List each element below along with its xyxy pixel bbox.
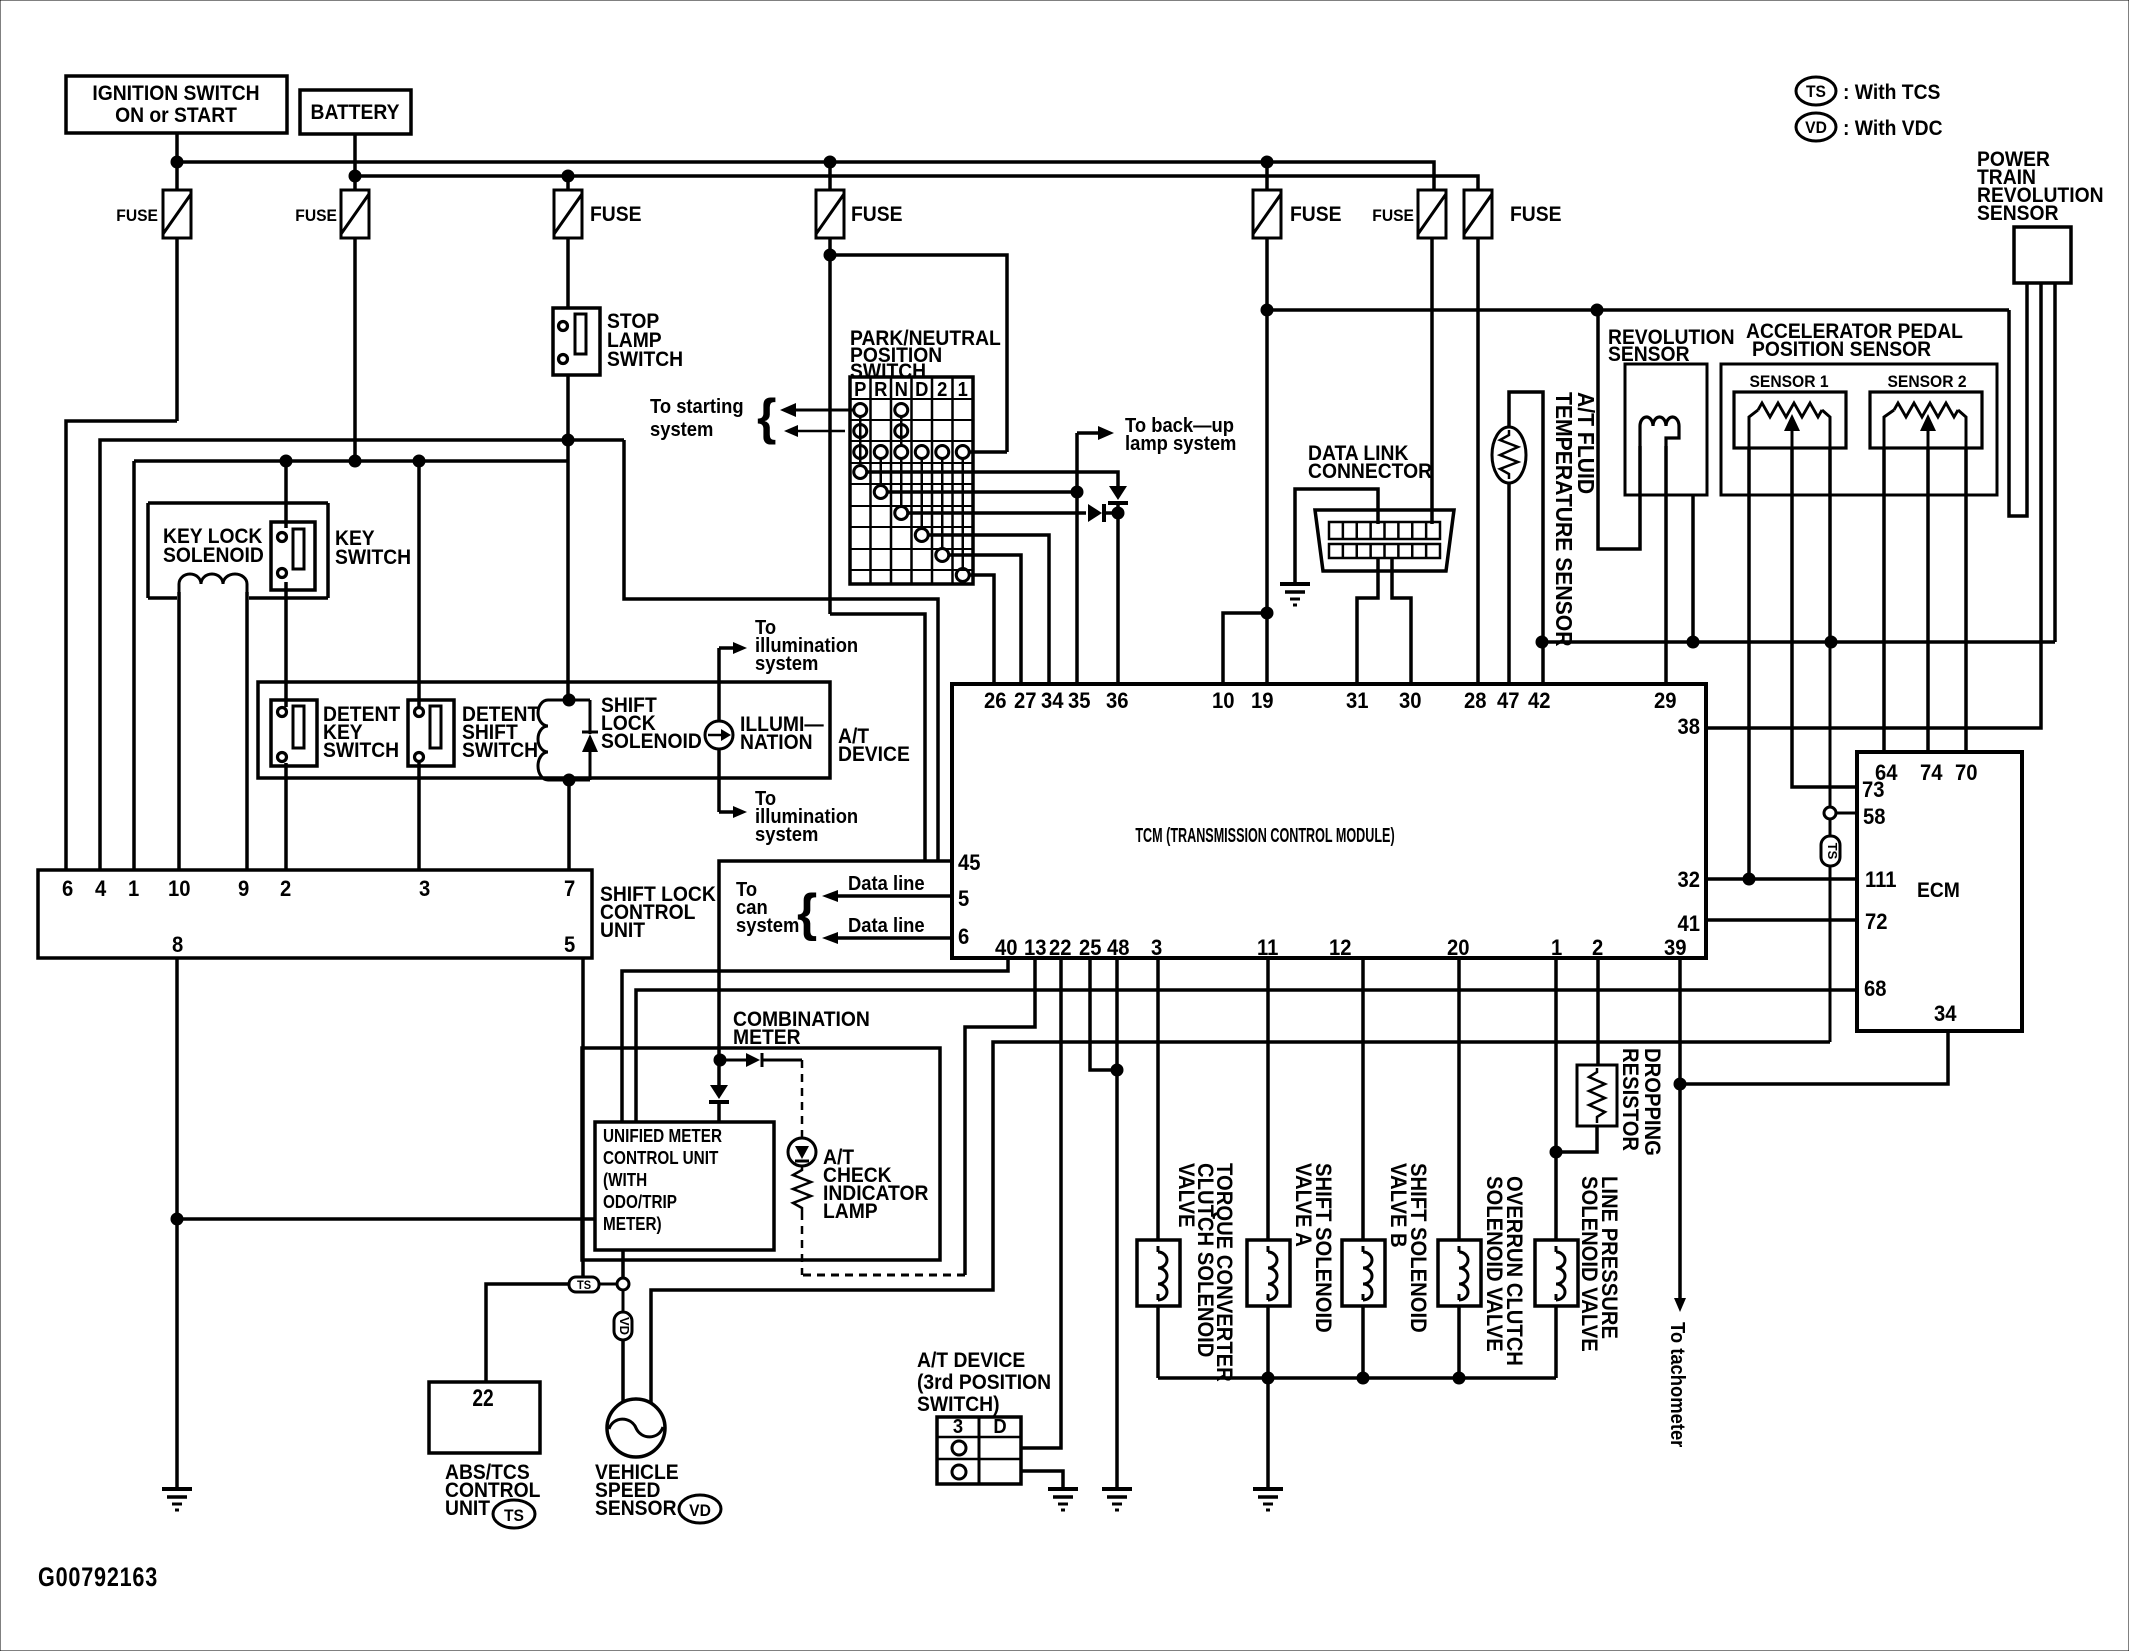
ECM left pin labels (1862, 778, 1897, 1001)
wire rail branch pin 1 (132, 461, 136, 870)
svg-text:TCM (TRANSMISSION CONTROL MODU: TCM (TRANSMISSION CONTROL MODULE) (1135, 824, 1394, 847)
svg-text:: With TCS: : With TCS (1843, 81, 1940, 104)
svg-text:: With VDC: : With VDC (1843, 117, 1943, 140)
node stop lamp junction (562, 434, 574, 446)
svg-text:SWITCH: SWITCH (323, 739, 399, 762)
svg-text:SENSOR: SENSOR (1977, 202, 2059, 225)
svg-text:VD: VD (1805, 118, 1827, 137)
wire power train sensor signal to TCM 38 (1706, 283, 2041, 728)
node pin 48 junction (1111, 1064, 1123, 1076)
diode D1 down (1108, 486, 1128, 513)
TCM right pin labels (1677, 715, 1700, 936)
svg-text:6: 6 (62, 877, 73, 901)
wire bus to fuse F4 (828, 162, 832, 190)
node sensor1 junction on 111 line (1743, 873, 1755, 885)
node battery bus junction (349, 170, 361, 182)
svg-text:SOLENOID: SOLENOID (163, 544, 264, 567)
svg-text:12: 12 (1329, 936, 1352, 960)
svg-text:41: 41 (1677, 912, 1700, 936)
ground data link connector (1280, 584, 1310, 605)
svg-text:9: 9 (238, 877, 249, 901)
svg-text:SOLENOID: SOLENOID (601, 730, 702, 753)
svg-text:UNIT: UNIT (600, 919, 646, 942)
ground pin 48 (1102, 1489, 1132, 1510)
svg-text:40: 40 (995, 936, 1018, 960)
svg-text:8: 8 (172, 933, 183, 957)
svg-text:10: 10 (1212, 689, 1235, 713)
svg-text:42: 42 (1528, 689, 1551, 713)
fuse F7 TCM power (1464, 190, 1561, 238)
wire PNP 1 contact to TCM pin 26 (969, 575, 994, 684)
svg-text:VALVE B: VALVE B (1386, 1163, 1410, 1248)
ECM box (1857, 752, 2022, 1031)
svg-text:3: 3 (419, 877, 430, 901)
park/neutral position switch grid (850, 377, 973, 584)
shift solenoid valve B (1342, 1240, 1385, 1306)
wire rail Q to meter feed (830, 614, 925, 861)
svg-text:10: 10 (168, 877, 191, 901)
node diode junction (1112, 507, 1124, 519)
wire PNP row3 common (969, 450, 1007, 454)
node rail detent shift junction (413, 455, 425, 467)
figure number (38, 1563, 158, 1593)
node back-up power junction (1261, 304, 1273, 316)
ground shift lock control unit (162, 1489, 192, 1510)
wire power train sensor ground to bus (2053, 283, 2057, 642)
svg-text:FUSE: FUSE (116, 206, 158, 225)
detent key switch (271, 700, 317, 766)
stop lamp switch (553, 308, 600, 375)
label to tachometer (1666, 1322, 1688, 1448)
svg-text:CONNECTOR: CONNECTOR (1308, 460, 1432, 483)
svg-text:UNIT: UNIT (445, 1497, 491, 1520)
svg-text:2: 2 (280, 877, 291, 901)
PNP header P R N D 2 1 (854, 379, 968, 401)
svg-text:SWITCH): SWITCH) (917, 1393, 1000, 1416)
ABS/TCS control unit box (429, 1382, 540, 1453)
node revolution sensor bus junction (1687, 636, 1699, 648)
legend TS at ABS unit (493, 1500, 535, 1528)
A/T fluid temperature sensor (1492, 427, 1526, 483)
symbol VD capsule speedo (614, 1290, 632, 1340)
wire ECM 34 to tachometer line (1680, 1031, 1948, 1084)
wire data link connector to TCM pin 30 (1392, 558, 1411, 684)
wire tcc valve to bus (1156, 1306, 1160, 1378)
wire temp sensor to TCM pin 42 (1509, 392, 1543, 684)
wire check lamp dashed link (802, 1274, 965, 1277)
wire sensor2 left to ECM 64 (1882, 448, 1886, 752)
svg-text:5: 5 (958, 887, 969, 911)
svg-text:2: 2 (1592, 936, 1603, 960)
wire key switch to detent key switch (284, 582, 288, 707)
node revolution sensor feed junction (1591, 304, 1603, 316)
node speed tap circle (599, 1278, 629, 1290)
PNP column wires (860, 416, 963, 569)
illumination lamp (705, 721, 733, 749)
svg-text:TS: TS (1825, 843, 1840, 860)
svg-text:20: 20 (1447, 936, 1470, 960)
TCM top pin labels (984, 689, 1677, 713)
wire bus to fuse F3 (566, 176, 570, 190)
node valve B bus junction (1357, 1372, 1369, 1384)
svg-text:32: 32 (1677, 868, 1700, 892)
symbol TS capsule on speed line (1821, 836, 1840, 866)
accelerator pedal position sensor label (1746, 320, 1963, 361)
wire TCM 20 to overrun clutch solenoid (1457, 958, 1461, 1240)
svg-text:70: 70 (1955, 761, 1978, 785)
svg-text:SOLENOID VALVE: SOLENOID VALVE (1577, 1176, 1601, 1352)
data link connector body (1315, 510, 1454, 571)
shift lock control unit top pins (62, 877, 575, 901)
line pressure solenoid valve label (1577, 1176, 1621, 1352)
node bus fuse3 junction (562, 170, 574, 182)
svg-text:{: { (757, 389, 776, 445)
svg-text:FUSE: FUSE (295, 206, 337, 225)
node back-up junction (1071, 486, 1083, 498)
accelerator pedal position sensor box (1721, 364, 1997, 495)
potentiometer sensor 2 (1870, 392, 1982, 448)
wire PNP R contact to back-up feed (887, 490, 1077, 494)
svg-text:POSITION SENSOR: POSITION SENSOR (1752, 338, 1932, 361)
wire battery to bus (353, 134, 357, 190)
wire stop lamp switch down (566, 375, 570, 461)
wire revolution sensor shield to bus (1691, 495, 1695, 642)
svg-text:68: 68 (1864, 977, 1887, 1001)
svg-text:SWITCH: SWITCH (462, 739, 538, 762)
unified meter control unit label (603, 1126, 722, 1234)
shift lock control unit label (600, 883, 716, 942)
shift lock control unit bottom pins (172, 933, 575, 957)
svg-text:VD: VD (689, 1501, 711, 1520)
svg-text:RESISTOR: RESISTOR (1618, 1048, 1642, 1151)
A/T device 3rd position switch label (917, 1349, 1051, 1416)
wire rail to detent shift switch (417, 461, 421, 707)
svg-text:SWITCH: SWITCH (607, 348, 683, 371)
svg-text:VALVE: VALVE (1174, 1163, 1198, 1227)
label to starting system (650, 389, 776, 445)
svg-text:system: system (650, 419, 713, 441)
wire TCM 1 to line pressure solenoid (1554, 958, 1558, 1240)
svg-text:7: 7 (564, 877, 575, 901)
wire rail down to shift lock solenoid (566, 461, 570, 700)
diode D4 in meter (709, 1085, 729, 1122)
PNP contact circles (854, 404, 970, 582)
wire shift lock 8 down (175, 958, 179, 1489)
wire TCM 45 to illumination feed (719, 861, 952, 1085)
svg-text:2: 2 (937, 379, 947, 401)
svg-text:SENSOR: SENSOR (595, 1497, 677, 1520)
arrow to tachometer (1674, 1298, 1686, 1312)
wire data line to TCM 5 (822, 890, 952, 902)
park/neutral position switch label (850, 327, 1001, 383)
wire TCM 3 to torque converter clutch solenoid (1156, 958, 1160, 1240)
ignition switch box (66, 76, 287, 133)
wire sensor1 wiper to ECM 73 (1792, 448, 1857, 787)
svg-text:G00792163: G00792163 (38, 1563, 158, 1593)
sensor 1 label (1749, 372, 1828, 391)
wire unified meter to ECM 68 (636, 990, 1857, 1122)
svg-text:NATION: NATION (740, 731, 813, 754)
stop lamp switch label (607, 310, 683, 371)
svg-text:TEMPERATURE SENSOR: TEMPERATURE SENSOR (1551, 392, 1577, 647)
fuse F3 stop lamp (554, 190, 641, 238)
wire dashed to check lamp (801, 1060, 804, 1138)
svg-text:26: 26 (984, 689, 1007, 713)
node overrun valve bus junction (1453, 1372, 1465, 1384)
svg-text:METER: METER (733, 1026, 801, 1049)
wire TCM 11 to shift solenoid A (1266, 958, 1270, 1240)
wire PNP D contact to TCM pin 34 (928, 535, 1049, 684)
fuse F2 battery (295, 190, 369, 238)
overrun clutch solenoid valve (1438, 1240, 1481, 1306)
label to back-up lamp system (1125, 415, 1236, 455)
wire stop lamp rail to pin 4 (100, 440, 624, 870)
A/T fluid temperature sensor label (1551, 392, 1599, 647)
arrow to illumination system lower (719, 806, 747, 818)
svg-text:VD: VD (617, 1317, 632, 1335)
wire fuse F1 down (175, 238, 179, 421)
wire speed chain to meter (651, 1042, 1830, 1404)
svg-text:45: 45 (958, 851, 981, 875)
svg-text:25: 25 (1079, 936, 1102, 960)
wire shift lock solenoid to pin 7 (567, 780, 571, 870)
wire valve B to bus (1361, 1306, 1365, 1378)
TCM left pin labels (958, 851, 981, 949)
node tachometer junction (1674, 1078, 1686, 1090)
detent shift switch (408, 700, 454, 766)
wire rail P to meter feed (624, 440, 938, 861)
legend TS with TCS (1796, 77, 1940, 105)
wire fuse F4 down (828, 238, 832, 614)
svg-text:FUSE: FUSE (851, 203, 902, 226)
wire key lock solenoid to pin 10 (177, 592, 181, 870)
svg-text:1: 1 (128, 877, 139, 901)
svg-text:ECM: ECM (1917, 879, 1960, 902)
wire illumination bottom (717, 749, 721, 812)
vehicle speed sensor (607, 1399, 665, 1457)
svg-text:BATTERY: BATTERY (311, 101, 401, 124)
svg-text:5: 5 (564, 933, 575, 957)
node shift lock solenoid top (563, 694, 575, 706)
ECM bottom pin label 34 (1934, 1002, 1957, 1026)
svg-text:UNIFIED METER: UNIFIED METER (603, 1126, 722, 1146)
wire fuse F2 down to rail (353, 238, 357, 461)
svg-text:system: system (736, 915, 799, 937)
svg-text:22: 22 (472, 1384, 493, 1412)
ground 3rd position switch (1048, 1489, 1078, 1510)
combination meter label (733, 1008, 870, 1049)
svg-text:13: 13 (1024, 936, 1047, 960)
svg-text:TS: TS (577, 1280, 591, 1292)
dropping resistor label (1618, 1048, 1664, 1156)
shift solenoid valve A (1247, 1240, 1290, 1306)
svg-text:72: 72 (1865, 910, 1888, 934)
svg-text:CONTROL UNIT: CONTROL UNIT (603, 1148, 719, 1168)
svg-text:SENSOR 1: SENSOR 1 (1749, 372, 1828, 391)
combination meter box (582, 1048, 940, 1260)
fuse F1 ignition (116, 190, 191, 238)
wire unified meter to speed node (621, 1250, 625, 1278)
svg-text:3: 3 (1151, 936, 1162, 960)
wire detent key switch to pin 2 (284, 763, 288, 870)
overrun clutch solenoid valve label (1482, 1176, 1526, 1366)
svg-text:Data line: Data line (848, 873, 925, 895)
fuse F6 data link (1372, 190, 1446, 238)
svg-text:(3rd POSITION: (3rd POSITION (917, 1371, 1051, 1394)
svg-text:73: 73 (1862, 778, 1885, 802)
svg-text:METER): METER) (603, 1214, 662, 1234)
key lock solenoid coil (179, 574, 247, 592)
shift solenoid valve B label (1386, 1163, 1430, 1333)
wire fuse F3 to stop lamp switch (566, 238, 570, 308)
revolution sensor coil (1640, 417, 1679, 446)
svg-text:27: 27 (1014, 689, 1037, 713)
ground solenoid valves (1253, 1489, 1283, 1510)
torque converter clutch solenoid valve label (1174, 1163, 1236, 1382)
svg-text:19: 19 (1251, 689, 1274, 713)
AT device label (838, 725, 910, 766)
svg-text:22: 22 (1049, 936, 1072, 960)
wire key lock solenoid to pin 9 (245, 592, 249, 870)
svg-text:34: 34 (1934, 1002, 1957, 1026)
ABS/TCS control unit label (445, 1461, 540, 1520)
TCM box (952, 684, 1706, 958)
svg-text:Data line: Data line (848, 915, 925, 937)
svg-text:48: 48 (1107, 936, 1130, 960)
wire TCM 48 to ground (1115, 958, 1119, 1489)
wire TS capsule to ABS unit (486, 1284, 569, 1382)
dropping resistor (1577, 1065, 1617, 1126)
wire valve ground bus (1158, 1376, 1556, 1380)
wire TCM 13 to check lamp (965, 958, 1035, 1275)
label data line upper (848, 873, 925, 895)
fuse F4 park/neutral (816, 190, 902, 238)
wire sensor ground bus (1542, 640, 2055, 644)
wire bus to fuse F5 (1265, 162, 1269, 190)
wire back-up feed to TCM pin 35 (1075, 433, 1079, 684)
wire 3rd position switch to ground (1021, 1471, 1063, 1489)
wire sensor2 right to ECM 70 (1964, 448, 1968, 752)
ECM top pin labels (1875, 761, 1978, 785)
svg-text:A/T DEVICE: A/T DEVICE (917, 1349, 1025, 1372)
wire rail to shift lock solenoid feed (134, 459, 568, 463)
A/T device box (258, 682, 830, 778)
wire vehicle speed chain vertical (1829, 642, 1832, 1042)
svg-text:34: 34 (1041, 689, 1064, 713)
illumination label (740, 713, 824, 754)
wire fuse F7 to TCM pin 28 (1476, 238, 1480, 684)
battery box (300, 90, 411, 134)
svg-text:ON or START: ON or START (115, 104, 238, 127)
wire TCM 32 to ECM 111 (1706, 877, 1857, 881)
arrow to back-up lamp system (1077, 426, 1114, 440)
svg-text:111: 111 (1865, 868, 1897, 892)
diode D2 right (1088, 504, 1118, 522)
svg-text:11: 11 (1257, 936, 1279, 960)
arrow to illumination system upper (719, 642, 747, 654)
diode D3 in meter (720, 1053, 802, 1067)
wire temp sensor to TCM pin 47 (1507, 483, 1511, 684)
wire shift lock 5 down (581, 958, 585, 1277)
wire dropping resistor to valve (1556, 1126, 1597, 1152)
svg-text:TS: TS (504, 1506, 524, 1525)
svg-text:39: 39 (1664, 936, 1687, 960)
svg-text:1: 1 (1551, 936, 1562, 960)
node TCM pin 19 junction (1261, 607, 1273, 619)
wire sensor1 right to bus (1828, 448, 1832, 642)
node bus fuse5 junction (1261, 156, 1273, 168)
wire line pressure valve to bus (1554, 1306, 1558, 1378)
TCM label (1135, 824, 1394, 847)
node bus fuse4 junction (824, 156, 836, 168)
svg-text:6: 6 (958, 925, 969, 949)
torque converter clutch solenoid valve (1137, 1240, 1180, 1306)
symbol TS capsule speedo (569, 1277, 599, 1292)
key switch (271, 522, 315, 590)
label to illumination system upper (755, 617, 858, 675)
wire revolution sensor feed (1598, 310, 1640, 549)
unified meter control unit box (595, 1122, 774, 1250)
node PNP feed junction (824, 249, 836, 261)
svg-text:N: N (895, 379, 908, 401)
svg-text:4: 4 (95, 877, 106, 901)
wire PNP common feed (830, 255, 1007, 452)
node ignition bus junction (171, 156, 183, 168)
wire TCM 40 to meter (622, 958, 1008, 1122)
svg-text:TS: TS (1806, 82, 1826, 101)
wire data line to TCM 6 (822, 932, 952, 944)
wire overrun valve to bus (1457, 1306, 1461, 1378)
wire revolution sensor to TCM pin 29 (1664, 446, 1668, 684)
wire lower supply bus (355, 176, 1478, 190)
wire PNP 2 contact to TCM pin 27 (948, 555, 1021, 684)
wire rail to key switch (284, 461, 288, 528)
arrow to starting system 2 (784, 425, 845, 437)
power train revolution sensor label (1977, 148, 2104, 225)
svg-text:35: 35 (1068, 689, 1091, 713)
wire diode junction to TCM pin 36 (1116, 513, 1120, 684)
svg-text:D: D (915, 379, 928, 401)
svg-text:FUSE: FUSE (1290, 203, 1341, 226)
svg-text:R: R (874, 379, 887, 401)
shift lock solenoid (538, 700, 598, 780)
wire TCM 2 to dropping resistor (1596, 958, 1600, 1065)
svg-text:FUSE: FUSE (590, 203, 641, 226)
node temp sensor bus junction (1536, 636, 1548, 648)
wire sensor2 wiper to ECM 74 (1926, 448, 1930, 752)
label to can system (736, 879, 817, 942)
A/T check indicator lamp label (823, 1146, 929, 1223)
wire TCM 25 jumper (1090, 958, 1117, 1070)
shift solenoid valve A label (1291, 1163, 1335, 1333)
A/T device 3rd position switch grid (937, 1416, 1021, 1484)
key lock solenoid label (163, 525, 264, 567)
svg-text:DEVICE: DEVICE (838, 743, 910, 766)
key lock solenoid box (148, 503, 328, 598)
wire VD capsule to speed sensor (621, 1340, 625, 1402)
svg-text:LAMP: LAMP (823, 1200, 878, 1223)
wire sensor1 left to TCM 32 line (1747, 448, 1751, 879)
line pressure solenoid valve (1535, 1240, 1578, 1306)
node sensor ground bus junction (1825, 636, 1837, 648)
svg-text:SWITCH: SWITCH (335, 546, 411, 569)
svg-text:30: 30 (1399, 689, 1422, 713)
label data line lower (848, 915, 925, 937)
power train revolution sensor box (2014, 227, 2071, 283)
svg-text:D: D (993, 1416, 1006, 1438)
node rail key switch junction (280, 455, 292, 467)
node dropping resistor junction (1550, 1146, 1562, 1158)
